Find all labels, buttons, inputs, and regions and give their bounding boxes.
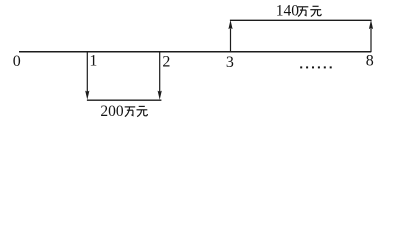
CJK character 元 (of 200万元) — [137, 106, 148, 116]
ellipsis dots between 3 and 8 — [300, 66, 332, 68]
svg-text:3: 3 — [226, 54, 234, 71]
svg-text:2: 2 — [162, 54, 170, 71]
CJK character 万 (of 200万元) — [125, 107, 136, 117]
wire: tick/arrow shaft up at point 8 — [370, 29, 372, 53]
wire: bottom dimension bar between 1 and 2 — [87, 99, 161, 101]
svg-text:140: 140 — [276, 3, 300, 20]
svg-text:8: 8 — [366, 53, 374, 70]
arrowhead up at point 3 — [228, 20, 232, 29]
svg-text:1: 1 — [89, 52, 97, 69]
svg-text:0: 0 — [13, 53, 21, 70]
wire: top dimension bar between 3 and 8 — [230, 19, 372, 21]
arrowhead down at point 2 — [158, 91, 162, 100]
wire: tick/arrow shaft down at point 2 — [159, 51, 161, 91]
arrowhead up at point 8 — [369, 20, 373, 29]
CJK character 元 (of 140万元) — [310, 6, 321, 16]
wire: main number line axis from 0 to 8 — [19, 51, 371, 53]
arrowhead down at point 1 — [85, 91, 89, 100]
CJK character 万 (of 140万元) — [298, 7, 309, 17]
svg-text:200: 200 — [100, 103, 124, 120]
wire: tick/arrow shaft down at point 1 — [86, 51, 88, 91]
wire: tick/arrow shaft up at point 3 — [230, 29, 232, 53]
